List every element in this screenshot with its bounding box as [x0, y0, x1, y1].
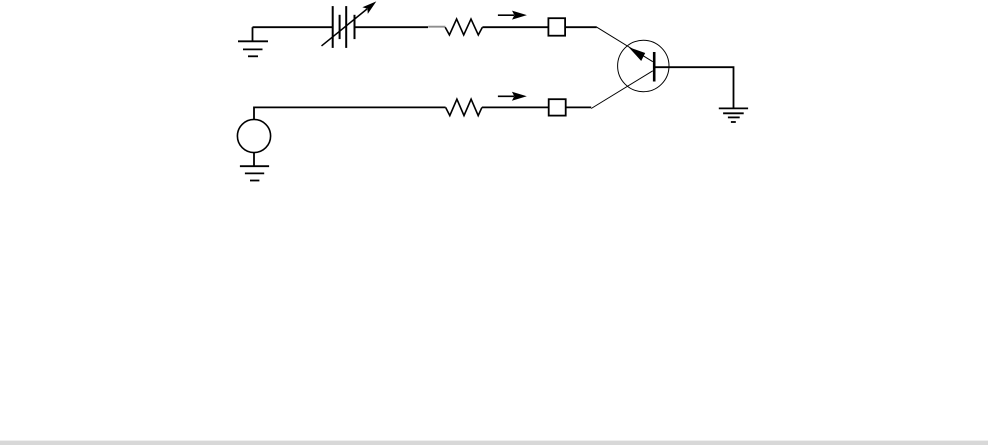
transistor Q1 circle	[618, 40, 669, 91]
wire resistor R2 to box S2	[482, 106, 549, 108]
scrollbar (bottom gray bar)	[0, 441, 988, 445]
resistor R2	[446, 99, 482, 115]
resistor R1	[445, 19, 482, 35]
wire box S2 to collector	[566, 106, 592, 108]
transistor Q1 collector lead	[591, 71, 653, 109]
ground G3 (below source)	[240, 153, 269, 181]
source V2 circle	[237, 119, 270, 152]
ground G2 (right, 4 bars)	[719, 108, 748, 122]
transistor Q1 emitter lead with arrow	[597, 27, 653, 62]
ground G1 (top-left)	[238, 27, 268, 56]
transistor Q1 base bar	[653, 52, 656, 82]
box S2 (bottom probe)	[549, 99, 566, 115]
variable battery V1	[322, 1, 377, 48]
wire source V2 to resistor R2	[254, 107, 446, 119]
wire battery V1 to node	[355, 26, 429, 28]
wire resistor R1 to box S1	[482, 26, 548, 28]
box S1 (top probe)	[548, 18, 565, 36]
wire ground G1 to battery V1	[253, 26, 333, 28]
current arrow A1	[498, 11, 527, 20]
wire box S1 to emitter	[565, 26, 597, 28]
current arrow A2	[498, 92, 527, 101]
wire (gray segment) node to resistor R1	[428, 26, 445, 28]
wire base to right corner	[654, 67, 733, 108]
